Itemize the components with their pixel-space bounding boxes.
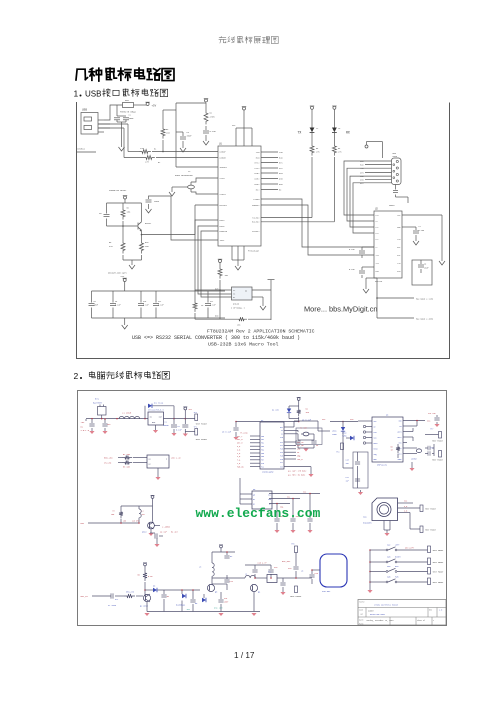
- svg-text:0.1UF: 0.1UF: [158, 304, 164, 307]
- capacitor C5 mcu: [236, 421, 262, 423]
- svg-text:P06: P06: [261, 456, 264, 458]
- wire U2 vcc right: [402, 214, 442, 216]
- svg-text:D4 LED: D4 LED: [272, 409, 280, 412]
- svg-text:R4 4K7: R4 4K7: [171, 531, 178, 534]
- svg-text:33NF: 33NF: [187, 135, 193, 138]
- svg-text:PWREN#: PWREN#: [252, 204, 260, 207]
- svg-text:JT601 Wireless Mouse: JT601 Wireless Mouse: [374, 604, 399, 607]
- svg-text:R8: R8: [127, 207, 130, 210]
- wire TXLED to IC: [311, 157, 313, 218]
- capacitor C7 right: [402, 226, 416, 228]
- ground C25: [290, 530, 295, 533]
- svg-text:R1: R1: [154, 148, 157, 151]
- svg-text:VDD: VDD: [398, 420, 401, 422]
- capacitor C3 input: [91, 419, 93, 423]
- ground switches: [369, 588, 371, 590]
- svg-text:Date:: Date:: [359, 620, 364, 622]
- capacitor C23 top: [436, 415, 438, 417]
- USB connector J1: [81, 113, 98, 135]
- heading 几种鼠标电路图: [76, 69, 88, 80]
- svg-text:A4: A4: [361, 613, 364, 616]
- wire USBDP with resistor R1 27R: [98, 123, 128, 125]
- svg-text:DTR#: DTR#: [255, 172, 261, 175]
- svg-text:( OPTIONAL ): ( OPTIONAL ): [231, 307, 245, 310]
- svg-text:X1: X1: [281, 430, 283, 432]
- LED TX: [310, 128, 315, 133]
- svg-text:EEDATA: EEDATA: [220, 230, 228, 233]
- svg-text:VCC: VCC: [397, 215, 400, 217]
- svg-text:0.1UF: 0.1UF: [143, 304, 149, 307]
- svg-text:100uF: 100uF: [163, 424, 169, 427]
- svg-text:C14: C14: [230, 580, 234, 583]
- svg-text:100P: 100P: [224, 602, 228, 604]
- inductor L4: [245, 575, 255, 578]
- ground below C4: [203, 138, 209, 145]
- ground below C3: [180, 145, 186, 152]
- resistor R3: [122, 461, 132, 465]
- resistor R4 470R: [205, 103, 207, 110]
- svg-text:MAX213: MAX213: [375, 280, 383, 283]
- svg-text:DO: DO: [245, 291, 247, 293]
- svg-text:0.1UF: 0.1UF: [210, 130, 217, 133]
- svg-text:TP1: TP1: [194, 411, 198, 414]
- svg-text:VCC: VCC: [189, 408, 193, 411]
- svg-text:TEST POINT: TEST POINT: [425, 509, 437, 511]
- antenna ANT1: [320, 554, 347, 587]
- svg-text:TX: TX: [298, 130, 302, 134]
- svg-text:2.4GHZ: 2.4GHZ: [162, 526, 171, 529]
- svg-text:3V3OUT: 3V3OUT: [220, 166, 228, 169]
- svg-text:C15 4.7P: C15 4.7P: [258, 562, 268, 565]
- svg-text:L6: L6: [301, 570, 304, 573]
- svg-text:R2: R2: [158, 161, 160, 164]
- terminal EEPROM vcc: [219, 260, 222, 263]
- transistor Q2 9018: [143, 594, 150, 601]
- ground C1: [171, 433, 176, 436]
- svg-text:P20: P20: [280, 437, 283, 439]
- svg-text:VSS: VSS: [280, 466, 283, 468]
- svg-text:P25: P25: [280, 455, 283, 457]
- svg-text:SHIELD: SHIELD: [77, 148, 86, 151]
- svg-text:SW5: SW5: [387, 576, 391, 579]
- diode D2 power: [289, 405, 299, 407]
- capacitor C4: [205, 126, 207, 130]
- svg-text:GND: GND: [397, 227, 400, 229]
- svg-text:NC: NC: [230, 555, 233, 558]
- capacitor C22 rf: [425, 447, 428, 449]
- svg-text:U2: U2: [375, 208, 378, 211]
- crystal caps C7 C8: [298, 439, 314, 441]
- svg-text:C5: C5: [99, 212, 102, 215]
- title block: [358, 600, 446, 626]
- svg-text:TURN: TURN: [342, 435, 347, 438]
- capacitor C1 C2 bank: [116, 105, 118, 116]
- diode D4 rf led: [346, 437, 350, 439]
- svg-text:X_B: X_B: [237, 456, 241, 458]
- svg-text:C5 0.1uF: C5 0.1uF: [222, 431, 231, 434]
- capacitor C9: [150, 532, 155, 534]
- svg-text:C2-: C2-: [376, 239, 379, 241]
- svg-text:T1I: T1I: [376, 255, 379, 257]
- svg-text:U6: U6: [386, 414, 389, 417]
- LED module U3: [147, 455, 169, 468]
- svg-text:TEST POINT: TEST POINT: [425, 530, 437, 532]
- svg-text:P02: P02: [261, 443, 264, 445]
- svg-text:DCD: DCD: [360, 160, 364, 163]
- net stubs TXD..RI: [261, 151, 278, 153]
- svg-text:150: 150: [111, 514, 114, 516]
- svg-text:6MHZ RESONATOR: 6MHZ RESONATOR: [175, 174, 193, 177]
- svg-text:TEST POINT: TEST POINT: [196, 423, 208, 426]
- svg-text:27R: 27R: [338, 151, 342, 154]
- svg-text:9018: 9018: [142, 531, 147, 534]
- svg-text:TEST POINT: TEST POINT: [290, 595, 302, 598]
- diode D1 SS14: [144, 406, 146, 419]
- svg-text:Q3: Q3: [215, 591, 218, 594]
- capacitor C16: [270, 565, 272, 569]
- ground C6: [146, 206, 152, 213]
- svg-text:DCD#: DCD#: [255, 183, 261, 186]
- svg-text:PCB ANT: PCB ANT: [322, 590, 331, 593]
- svg-text:TEST POINT: TEST POINT: [196, 438, 208, 441]
- svg-text:0.1UF: 0.1UF: [349, 268, 355, 271]
- svg-text:MID: MID: [395, 565, 399, 568]
- svg-text:+5V: +5V: [152, 105, 157, 108]
- svg-text:VCC: VCC: [322, 418, 326, 421]
- capacitor C27: [192, 590, 194, 599]
- svg-text:KEY_LEFT: KEY_LEFT: [405, 547, 415, 550]
- capacitor C25: [292, 499, 294, 519]
- svg-text:SLEEP#: SLEEP#: [252, 230, 260, 233]
- svg-text:FT8U232AM: FT8U232AM: [248, 250, 260, 253]
- svg-text:U5: U5: [253, 488, 256, 491]
- svg-text:C21: C21: [346, 477, 349, 479]
- svg-text:XTOUT: XTOUT: [220, 193, 227, 196]
- varactor D4: [181, 590, 183, 594]
- svg-text:SW2: SW2: [387, 544, 390, 547]
- capacitor C28: [220, 592, 222, 599]
- svg-text:3R3-470: 3R3-470: [126, 591, 135, 594]
- main power rail: [86, 418, 195, 420]
- svg-text:RIGHT: RIGHT: [395, 556, 402, 559]
- svg-text:LEFT: LEFT: [395, 544, 400, 547]
- capacitor C1 100uF: [173, 419, 175, 424]
- svg-text:USB: USB: [85, 90, 101, 99]
- capacitor C13 NC: [226, 552, 228, 555]
- svg-text:SW1: SW1: [363, 516, 367, 519]
- subtitle 1 接口鼠标电路图: [103, 89, 111, 97]
- svg-text:1uF: 1uF: [346, 463, 349, 465]
- svg-text:SW4: SW4: [387, 565, 391, 568]
- svg-text:TP7: TP7: [430, 428, 433, 431]
- svg-text:P27: P27: [280, 462, 283, 464]
- svg-text:RTS: RTS: [279, 162, 283, 165]
- svg-text:RX: RX: [346, 130, 350, 134]
- inductor L3: [211, 552, 213, 563]
- svg-text:V+: V+: [376, 221, 378, 223]
- rf chip U6 NRF24L01: [372, 417, 403, 462]
- svg-text:VCC: VCC: [232, 124, 236, 127]
- test point TP10: [420, 526, 423, 533]
- wire mcu reset: [284, 426, 294, 428]
- svg-text:PT 2045: PT 2045: [108, 604, 117, 607]
- svg-text:VCC: VCC: [404, 501, 407, 503]
- svg-text:1: 1: [74, 89, 79, 99]
- svg-text:P22: P22: [280, 445, 283, 447]
- wire XTOUT: [191, 192, 218, 194]
- svg-text:R2 100: R2 100: [123, 453, 131, 456]
- svg-text:ANT1: ANT1: [397, 430, 401, 433]
- svg-text:C13 6P8: C13 6P8: [132, 520, 139, 522]
- svg-text:TEST POINT: TEST POINT: [432, 441, 444, 443]
- svg-text:DTR: DTR: [279, 172, 283, 175]
- svg-text:ALL CAP: X7R 0402: ALL CAP: X7R 0402: [288, 470, 306, 473]
- svg-text:VCC: VCC: [350, 418, 354, 421]
- svg-text:R6: R6: [138, 574, 141, 577]
- terminal VCC mixer: [144, 563, 147, 566]
- capacitor C2 104: [184, 419, 186, 424]
- mcu right net labels: [284, 441, 296, 443]
- ground mixer: [146, 602, 148, 612]
- svg-text:A1: A1: [253, 498, 255, 501]
- ground regulator: [155, 425, 157, 430]
- terminal VCC pa: [220, 545, 223, 548]
- wire pa mid: [212, 583, 227, 585]
- svg-text:P21: P21: [280, 442, 283, 444]
- svg-text:LED_G: LED_G: [297, 459, 302, 461]
- svg-text:VSS: VSS: [398, 442, 401, 444]
- svg-text:TEST POINT: TEST POINT: [433, 582, 445, 584]
- svg-text:1.0: 1.0: [439, 610, 442, 612]
- svg-text:L2: L2: [142, 511, 144, 513]
- svg-text:ANT_IN: ANT_IN: [81, 595, 89, 598]
- ground LED: [157, 468, 159, 477]
- svg-text:5.6K: 5.6K: [148, 575, 153, 578]
- svg-text:MAX BAUD = 115K: MAX BAUD = 115K: [416, 298, 434, 301]
- svg-text:TEST POINT: TEST POINT: [433, 572, 445, 574]
- LED RX: [332, 128, 337, 133]
- svg-text:R3: R3: [166, 128, 169, 131]
- svg-text:1K0: 1K0: [306, 411, 310, 414]
- svg-text:File:: File:: [359, 624, 364, 626]
- svg-text:CE: CE: [297, 452, 299, 454]
- svg-text:0.1UF: 0.1UF: [115, 304, 121, 307]
- svg-text:X_A: X_A: [237, 452, 241, 455]
- svg-text:C9: C9: [424, 264, 426, 266]
- test point TP8: [439, 451, 442, 458]
- wire bottom rail: [195, 318, 236, 320]
- ground C2: [183, 434, 188, 437]
- svg-text:R2I: R2I: [397, 255, 400, 257]
- regulator U2 SPX1117: [148, 412, 164, 425]
- svg-text:C3: C3: [187, 131, 190, 134]
- oscillator box: [121, 505, 153, 507]
- svg-text:SCL: SCL: [268, 495, 271, 497]
- svg-text:FB1: FB1: [125, 99, 130, 102]
- svg-text:U1: U1: [219, 143, 222, 146]
- svg-text:KEY_M: KEY_M: [237, 443, 242, 445]
- svg-text:MOSI: MOSI: [374, 443, 378, 445]
- svg-text:P10: P10: [261, 463, 264, 465]
- transceiver U2 MAX213: [374, 211, 402, 278]
- capacitor C3 33NF: [176, 131, 183, 133]
- diode LED1 power: [342, 422, 344, 428]
- svg-text:FT8U232AM Rev 2 APPLICATION SC: FT8U232AM Rev 2 APPLICATION SCHEMATIC: [207, 329, 315, 335]
- svg-text:P07: P07: [261, 460, 264, 462]
- svg-text:R10: R10: [145, 241, 149, 244]
- pa bottom rail: [226, 611, 260, 613]
- wire reset to IC: [142, 234, 196, 236]
- svg-text:More... bbs.MyDigit.cn: More... bbs.MyDigit.cn: [304, 305, 378, 314]
- svg-text:L3: L3: [338, 127, 341, 130]
- svg-text:C18: C18: [288, 567, 292, 570]
- svg-text:Q2 9018: Q2 9018: [140, 605, 149, 608]
- switch SW5 PWR: [370, 581, 386, 583]
- test point TP4: [341, 443, 344, 450]
- capacitor C12: [163, 590, 165, 594]
- capacitor C19: [311, 570, 313, 574]
- svg-text:GND: GND: [374, 459, 377, 461]
- svg-text:CS: CS: [233, 290, 235, 292]
- svg-text:P05: P05: [261, 453, 264, 455]
- rf right wires: [403, 420, 425, 422]
- svg-text:2: 2: [74, 371, 79, 381]
- svg-text:RI#: RI#: [256, 188, 260, 191]
- svg-text:CTS#: CTS#: [255, 167, 261, 170]
- svg-text:USB: USB: [82, 109, 87, 112]
- svg-text:0.1UF: 0.1UF: [419, 229, 425, 232]
- svg-text:IRQ: IRQ: [297, 455, 300, 457]
- transistor Q1: [138, 222, 142, 230]
- ground reset: [123, 259, 142, 261]
- wire XTIN: [191, 178, 218, 182]
- schematic 1 sheet border: [76, 102, 78, 359]
- wire TXDEN to U2: [261, 199, 374, 247]
- svg-text:C1+: C1+: [376, 215, 379, 217]
- svg-text:TEST: TEST: [220, 239, 226, 242]
- svg-text:30: 30: [167, 595, 170, 598]
- wire max baud 115k: [376, 278, 378, 298]
- svg-text:1K5: 1K5: [166, 132, 170, 135]
- svg-text:USB <=> RS232 SERIAL CONVERTER: USB <=> RS232 SERIAL CONVERTER ( 300 to …: [132, 335, 300, 341]
- svg-text:CONN: CONN: [393, 155, 398, 158]
- svg-text:C16: C16: [224, 598, 227, 600]
- switch bus: [369, 550, 371, 588]
- svg-text:1uF: 1uF: [346, 481, 349, 483]
- svg-text:PWR_ON: PWR_ON: [237, 466, 243, 468]
- svg-text:D6: D6: [153, 585, 156, 588]
- svg-text:TXD: TXD: [279, 151, 283, 154]
- svg-text:KEY_L: KEY_L: [237, 436, 242, 438]
- svg-text:NRF24L01: NRF24L01: [377, 464, 388, 467]
- svg-text:POWER-ON RESET: POWER-ON RESET: [109, 189, 127, 192]
- svg-text:C20: C20: [346, 460, 349, 462]
- wire top rail to R4: [176, 102, 206, 104]
- resistor R8 10K: [122, 203, 124, 207]
- wire EECS: [195, 220, 232, 290]
- svg-text:Y1: Y1: [188, 170, 191, 173]
- svg-text:RXLED#: RXLED#: [252, 221, 260, 224]
- svg-text:IRQ: IRQ: [374, 454, 377, 456]
- wire base: [107, 225, 139, 227]
- svg-text:XC1: XC1: [398, 453, 401, 455]
- svg-text:CABLE: CABLE: [389, 204, 396, 207]
- svg-text:DCD: DCD: [279, 183, 283, 186]
- schematic 2 sheet border: [77, 390, 79, 626]
- svg-text:C19: C19: [315, 572, 318, 575]
- svg-text:10NF: 10NF: [94, 304, 99, 307]
- resistor R9 47K: [122, 226, 124, 240]
- op-amp U1 FT8U232AM: [218, 146, 261, 246]
- svg-text:104: 104: [107, 423, 111, 426]
- svg-text:PWR: PWR: [395, 576, 399, 579]
- test point TP1: [195, 414, 198, 421]
- svg-text:BATTERY: BATTERY: [93, 402, 103, 405]
- svg-text:D5: D5: [195, 602, 198, 605]
- transistor Q4: [250, 584, 257, 591]
- svg-text:CTS: CTS: [279, 167, 283, 170]
- ferrite bead FB1: [123, 103, 134, 108]
- svg-text:CSN: CSN: [374, 432, 377, 434]
- svg-text:L3: L3: [199, 566, 202, 569]
- svg-text:100: 100: [123, 520, 126, 522]
- test point TP7: [439, 432, 442, 439]
- svg-text:10NF: 10NF: [154, 200, 160, 203]
- svg-text:CSN: CSN: [297, 449, 300, 451]
- rf cap frame: [353, 452, 368, 488]
- capacitor C18: [295, 560, 297, 566]
- svg-text:L1 10uH: L1 10uH: [122, 412, 132, 415]
- svg-text:L2: L2: [316, 127, 318, 130]
- svg-text:P23: P23: [280, 449, 283, 451]
- terminal RX vcc: [333, 106, 336, 109]
- svg-text:R3 100: R3 100: [123, 466, 131, 469]
- svg-text:C9 1uF: C9 1uF: [160, 531, 167, 534]
- svg-text:SCL: SCL: [287, 497, 290, 499]
- svg-text:RED_LED: RED_LED: [104, 457, 113, 460]
- svg-text:470R: 470R: [210, 116, 216, 119]
- resistor R3 1K5 pullup: [162, 110, 164, 126]
- ground below C1: [119, 144, 125, 151]
- wire VBUS to ferrite: [104, 105, 123, 120]
- crystal Y1 mcu: [284, 429, 298, 431]
- terminal +5V: [146, 103, 149, 106]
- wire max baud 460k: [376, 298, 378, 318]
- transistor Q3: [207, 584, 214, 591]
- svg-text:SW3: SW3: [387, 556, 391, 559]
- svg-text:P03: P03: [261, 446, 264, 448]
- svg-text:XTIN: XTIN: [220, 177, 226, 180]
- svg-text:R1O: R1O: [376, 271, 379, 273]
- diode D5: [203, 594, 205, 598]
- svg-text:Monday, December 13, 2004: Monday, December 13, 2004: [367, 620, 394, 622]
- svg-text:ANT_OUT: ANT_OUT: [282, 560, 291, 563]
- microcontroller U1: [260, 422, 284, 469]
- svg-text:TEST POINT: TEST POINT: [432, 460, 444, 462]
- svg-text:RST: RST: [280, 427, 283, 429]
- capacitor C4 input: [104, 419, 106, 423]
- svg-text:TURN: TURN: [332, 433, 337, 436]
- svg-text:4.5~1.5: 4.5~1.5: [81, 429, 90, 432]
- svg-text:DECOUPLING CAPS: DECOUPLING CAPS: [108, 272, 127, 275]
- resonator Y1: [188, 185, 195, 189]
- ground mcu: [284, 466, 311, 468]
- inductor L1: [119, 416, 140, 419]
- wire DB9 cable: [395, 185, 397, 190]
- IC top power pins: [243, 107, 246, 110]
- test point TP9: [420, 505, 423, 512]
- svg-text:TXLED#: TXLED#: [252, 216, 260, 219]
